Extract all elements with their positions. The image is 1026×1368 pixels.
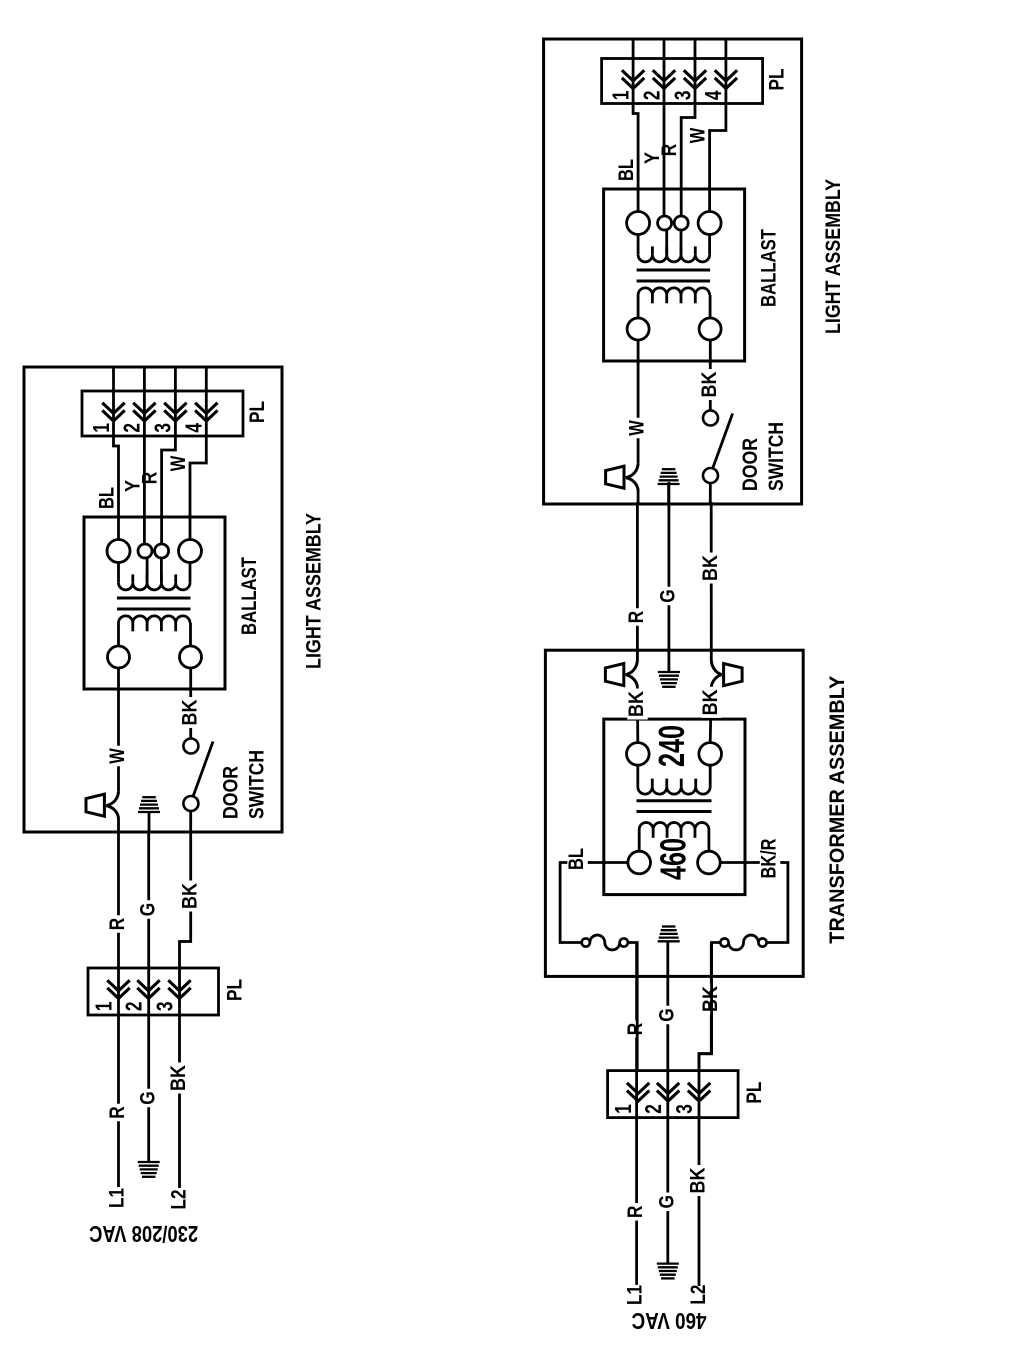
svg-text:2: 2 (119, 423, 145, 433)
svg-text:1: 1 (607, 90, 633, 100)
circuit 2 PL pin 4 contact arrows (715, 78, 737, 89)
transformer core (637, 810, 712, 813)
svg-text:BK: BK (699, 555, 722, 581)
transformer box (604, 719, 745, 895)
wire L2/BK run with jog (circuit 1) (180, 832, 191, 1188)
svg-text:PL: PL (743, 1081, 766, 1103)
circuit 1 PL pin 1 lead (112, 367, 115, 421)
door switch blade (circuit 2) (713, 414, 733, 468)
svg-text:230/208 VAC: 230/208 VAC (89, 1221, 198, 1247)
svg-text:BK: BK (698, 372, 721, 398)
svg-text:BK: BK (625, 691, 648, 717)
light assembly outer box (circuit 2) (544, 39, 802, 504)
wire label R mid (circuit 2) (626, 1020, 647, 1038)
circuit 1 ballast winding end stubs and taps (117, 563, 120, 583)
circuit 1 PL pin 2 contact arrows (133, 410, 155, 421)
wire BK transformer to light assembly (circuit 2) (710, 502, 713, 650)
svg-text:PL: PL (224, 979, 247, 1001)
wire label R run2 (circuit 2) (627, 608, 648, 626)
svg-text:2: 2 (638, 91, 664, 101)
transformer 240V winding (638, 787, 710, 794)
ground stem (transformer right) (668, 650, 671, 672)
circuit 2 PL pin 1 lead (632, 39, 635, 89)
wire label G left (circuit 1) (139, 1089, 160, 1108)
circuit 2 PL pin 4 lead (725, 39, 728, 89)
transformer 460V winding (639, 823, 709, 830)
circuit 2 PL pin 3 contact arrows (684, 78, 706, 89)
wire label BK right (circuit 1) (181, 881, 202, 912)
ballast terminal circles BL/Y/R/W (circuit 2) (627, 212, 650, 235)
circuit 2 input pin 1 contact arrows (627, 1091, 649, 1102)
wire label R right (circuit 1) (108, 915, 129, 933)
ground stem (circuit 1) (148, 812, 151, 832)
label W (circuit 1) (108, 746, 129, 767)
wire label R left (circuit 1) (108, 1104, 129, 1122)
circuit 1 input pin 3 contact arrows (168, 988, 190, 999)
wire label BK left (circuit 1) (169, 1063, 190, 1094)
wire L2/BK run with jog (circuit 2) (699, 943, 711, 1287)
lamp socket symbol (circuit 1) (86, 794, 104, 816)
wire W ballast to lamp contact (circuit 1) (117, 668, 120, 792)
lamp contact arcs upper (transformer) (626, 661, 638, 675)
wire G run input (circuit 2) (666, 941, 669, 1263)
wire W pin4 to ballast (circuit 1) (190, 421, 206, 540)
wire label BK run2 (circuit 2) (701, 553, 722, 584)
light assembly outer box (circuit 1) (24, 367, 282, 832)
svg-text:W: W (687, 128, 710, 144)
wire BL pin1 to ballast (circuit 2) (633, 89, 638, 212)
wire G run (circuit 1) (147, 832, 150, 1162)
svg-text:460 VAC: 460 VAC (632, 1308, 707, 1334)
svg-text:1: 1 (88, 423, 114, 433)
wire R transformer to light assembly (circuit 2) (636, 502, 639, 650)
plug contact symbol upper (transformer) (605, 664, 623, 686)
lamp contact arcs (circuit 2) (626, 464, 638, 478)
circuit 1 PL pin 2 lead (143, 367, 146, 421)
svg-text:BK: BK (699, 689, 722, 715)
circuit 1 ballast primary end stubs (117, 623, 120, 646)
ground symbol (circuit 2) (658, 483, 680, 485)
breaker coil upper contact circles and coil (582, 938, 590, 946)
240 winding terminals (627, 743, 650, 766)
wire BL 460 winding to breaker (560, 863, 628, 943)
svg-text:G: G (655, 1008, 678, 1022)
svg-text:BALLAST: BALLAST (238, 557, 261, 635)
wire label G left (circuit 2) (658, 1193, 679, 1212)
circuit 2 PL pin 3 lead (694, 39, 697, 89)
wire BK ballast to door switch (circuit 1) (189, 668, 192, 738)
circuit 1 PL pin 1 contact arrows (102, 410, 124, 421)
label BL (transformer) (567, 846, 588, 873)
wire BK ballast to door switch (circuit 2) (709, 340, 712, 410)
connector PL (circuit 2 input) body (608, 1071, 739, 1118)
circuit 1 PL pin 3 contact arrows (164, 410, 186, 421)
wire breaker to BK jog (699, 943, 720, 1071)
svg-text:460: 460 (653, 838, 694, 880)
breaker coil lower contact circles and coil (758, 938, 766, 946)
circuit 1 PL pin 4 contact arrows (195, 410, 217, 421)
circuit 2 ballast winding end stubs and taps (637, 235, 640, 255)
svg-text:G: G (136, 1091, 159, 1105)
wire label G run2 (circuit 2) (659, 587, 680, 606)
door switch blade (circuit 1) (193, 742, 213, 796)
wire label BK left (circuit 2) (689, 1165, 710, 1196)
svg-text:L2: L2 (687, 1285, 710, 1305)
svg-text:2: 2 (121, 1002, 147, 1012)
plug contact symbol lower (transformer) (724, 664, 743, 686)
svg-text:G: G (136, 903, 159, 917)
460 winding terminals (628, 851, 651, 874)
wire Y pin2 to ballast (circuit 1) (143, 421, 146, 544)
svg-text:G: G (655, 1195, 678, 1209)
wire label BK mid (circuit 2) (701, 984, 722, 1015)
svg-text:BL: BL (615, 159, 638, 181)
wire W to box edge (circuit 1) (117, 819, 120, 833)
wire label G right (circuit 1) (139, 900, 160, 919)
label BK upper (transformer) (627, 689, 648, 720)
ground stem (circuit 2) (667, 484, 670, 504)
connector PL 4-pin box (circuit 1) (82, 391, 243, 436)
svg-text:L1: L1 (106, 1188, 129, 1208)
ballast secondary winding (circuit 1) (119, 583, 191, 590)
ground symbol at input (circuit 1) (138, 1161, 160, 1163)
svg-text:BK: BK (687, 1168, 710, 1194)
svg-text:G: G (657, 589, 680, 603)
ground symbol at input (circuit 2) (657, 1262, 679, 1264)
svg-text:R: R (106, 918, 129, 931)
svg-text:R: R (625, 611, 648, 624)
svg-text:LIGHT ASSEMBLY: LIGHT ASSEMBLY (822, 179, 845, 334)
wire BL pin1 to ballast (circuit 1) (114, 421, 119, 540)
ballast core (circuit 2) (637, 280, 711, 283)
svg-text:4: 4 (181, 423, 207, 433)
svg-text:DOOR: DOOR (220, 766, 243, 819)
circuit 2 input pin 2 contact arrows (657, 1091, 679, 1102)
ballast core (circuit 1) (117, 608, 191, 611)
wire W to box edge (circuit 2) (637, 491, 640, 505)
svg-text:R: R (624, 1206, 647, 1219)
wire R pin3 to ballast (circuit 1) (162, 421, 176, 544)
wire L1/R run (circuit 2) (635, 943, 638, 1285)
svg-text:BL: BL (96, 487, 119, 509)
wire BK door switch to box edge (circuit 1) (189, 811, 192, 832)
svg-text:W: W (626, 420, 649, 436)
wire W ballast to lamp contact (circuit 2) (637, 340, 640, 464)
svg-text:TRANSFORMER ASSEMBLY: TRANSFORMER ASSEMBLY (826, 676, 849, 944)
wire to 240 winding upper (636, 687, 639, 743)
svg-text:3: 3 (669, 91, 695, 101)
circuit 2 ballast primary end stubs (637, 295, 640, 318)
wire R pin3 to ballast (circuit 2) (681, 89, 695, 217)
svg-text:BL: BL (565, 848, 588, 870)
connector PL (circuit 1 input) body (88, 968, 219, 1015)
wire BK door switch to box edge (circuit 2) (709, 483, 712, 504)
svg-text:240: 240 (651, 725, 692, 767)
door switch contacts (circuit 1) (183, 739, 198, 754)
svg-text:L2: L2 (168, 1190, 191, 1210)
ballast box (circuit 2) (604, 189, 745, 361)
door switch contacts (circuit 2) (703, 411, 718, 426)
svg-text:R: R (106, 1106, 129, 1119)
wire label G mid (circuit 2) (658, 1006, 679, 1025)
wire R/BK 240 lead upper (636, 650, 639, 660)
460 winding stubs (638, 830, 641, 852)
svg-text:2: 2 (640, 1104, 666, 1114)
wire R/BK 240 lead lower (710, 650, 713, 660)
circuit 1 PL pin 4 lead (205, 367, 208, 421)
circuit 2 PL pin 1 contact arrows (622, 78, 644, 89)
svg-text:BALLAST: BALLAST (758, 229, 781, 307)
label BK/R (transformer) (760, 836, 781, 881)
svg-text:4: 4 (700, 90, 726, 100)
svg-text:BK/R: BK/R (758, 839, 781, 879)
svg-text:3: 3 (150, 423, 176, 433)
circuit 2 PL pin 2 contact arrows (653, 78, 675, 89)
lamp contact arcs (circuit 1) (106, 792, 118, 806)
wire Y pin2 to ballast (circuit 2) (663, 89, 666, 217)
ballast secondary winding (circuit 2) (638, 255, 710, 262)
ballast primary winding (circuit 2) (638, 288, 710, 295)
svg-text:BK: BK (167, 1065, 190, 1091)
circuit 1 PL pin 3 lead (174, 367, 177, 421)
ballast box (circuit 1) (84, 517, 225, 689)
svg-text:R: R (658, 144, 681, 157)
label BK (circuit 1) (181, 697, 202, 728)
circuit 2 PL pin 2 lead (663, 39, 666, 89)
240 winding stubs (636, 765, 639, 787)
ground symbol (transformer right) (658, 671, 680, 673)
circuit 1 input pin 2 contact arrows (137, 988, 159, 999)
lamp socket symbol (circuit 2) (606, 466, 624, 488)
transformer assembly outer box (545, 650, 803, 976)
svg-text:1: 1 (610, 1104, 636, 1114)
svg-text:LIGHT ASSEMBLY: LIGHT ASSEMBLY (303, 513, 326, 669)
ballast primary winding (circuit 1) (119, 616, 191, 623)
wire to 240 winding lower (710, 687, 711, 743)
svg-text:PL: PL (246, 401, 269, 423)
label W (circuit 2) (628, 418, 649, 439)
ballast primary terminals (circuit 2) (627, 318, 649, 340)
svg-text:R: R (624, 1023, 647, 1036)
svg-text:W: W (106, 748, 129, 764)
circuit 2 input pin 3 contact arrows (688, 1091, 710, 1102)
svg-text:3: 3 (152, 1002, 178, 1012)
svg-text:L1: L1 (624, 1285, 647, 1305)
wire breaker to input pin 1 (628, 943, 637, 1071)
lamp contact arcs lower (transformer) (711, 661, 721, 675)
ground symbol (transformer left) (658, 940, 680, 942)
label BK lower (transformer) (701, 687, 722, 718)
wire W pin4 to ballast (circuit 2) (710, 89, 726, 212)
circuit 1 input pin 1 contact arrows (107, 988, 129, 999)
svg-text:BK: BK (178, 700, 201, 726)
svg-text:BK: BK (178, 883, 201, 909)
svg-text:DOOR: DOOR (739, 438, 762, 491)
svg-text:1: 1 (91, 1001, 117, 1011)
wire label R left (circuit 2) (626, 1203, 647, 1221)
svg-text:W: W (167, 456, 190, 472)
ground symbol (circuit 1) (138, 811, 160, 813)
label BK (circuit 2) (700, 369, 721, 400)
svg-text:3: 3 (671, 1104, 697, 1114)
wire BK/R 460 winding to breaker (720, 863, 788, 943)
svg-text:PL: PL (766, 68, 789, 90)
ballast terminal circles BL/Y/R/W (circuit 1) (107, 540, 130, 563)
connector PL 4-pin box (circuit 2) (602, 59, 763, 104)
wire L1/R run (circuit 1) (117, 832, 120, 1187)
svg-text:SWITCH: SWITCH (246, 750, 269, 819)
svg-text:R: R (139, 472, 162, 485)
wire G transformer to light assembly (circuit 2) (668, 482, 671, 650)
ballast primary terminals (circuit 1) (108, 646, 130, 668)
svg-text:SWITCH: SWITCH (765, 422, 788, 491)
